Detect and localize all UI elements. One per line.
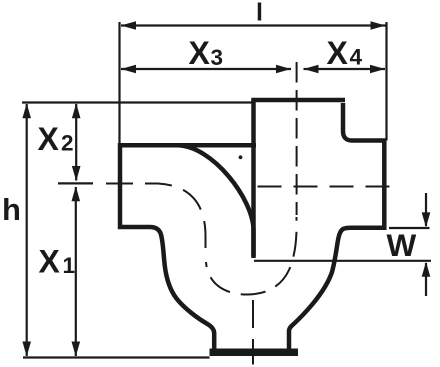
trap body outline: bowl right wall, outlet socket (289, 103, 384, 349)
bottom spigot centerline (252, 300, 254, 365)
arrowhead X3 right (276, 65, 291, 74)
svg-text:W: W (387, 227, 417, 263)
svg-text:X: X (327, 35, 349, 71)
inlet bend sweep curve (177, 145, 254, 256)
arrowhead l left (121, 21, 136, 30)
dimension line X3 (121, 68, 291, 70)
arrowhead X3 left (121, 65, 136, 74)
svg-text:2: 2 (61, 131, 74, 156)
arrowhead W up (422, 262, 431, 277)
vertical pipe top edge (251, 98, 345, 103)
arrowhead X4 right (370, 65, 385, 74)
W top extension line (389, 227, 430, 229)
svg-text:3: 3 (211, 45, 224, 70)
svg-text:X: X (39, 244, 61, 280)
arrowhead h top (22, 103, 31, 118)
arrowhead X1 bottom (72, 342, 81, 357)
dimension line W upper (425, 193, 427, 226)
section dot (239, 155, 243, 159)
arrowhead X2 bottom (72, 166, 81, 181)
dimension line X2 (75, 104, 77, 181)
svg-text:l: l (256, 0, 263, 27)
arrowhead X4 left (304, 65, 319, 74)
right extension line for l and X4 (385, 22, 387, 141)
dimension line W lower (425, 263, 427, 296)
dimension line l (121, 24, 386, 26)
svg-text:4: 4 (350, 45, 363, 70)
dimension line X4 (304, 68, 386, 70)
outlet centerline (258, 186, 399, 188)
vertical pipe centerline (296, 62, 298, 215)
svg-text:h: h (2, 192, 21, 227)
arrowhead l right (371, 21, 386, 30)
trap body outline: inlet socket and bowl left wall (120, 145, 256, 349)
hidden channel centerline: inlet through U-bend (106, 184, 206, 251)
svg-text:1: 1 (63, 253, 76, 278)
bottom reference extension line (23, 356, 210, 358)
left extension line for l and X3 (118, 22, 120, 145)
arrowhead h bottom (22, 342, 31, 357)
dimension line X1 (75, 187, 77, 356)
vertical pipe left wall (251, 100, 256, 258)
W bottom reference line (254, 260, 431, 262)
arrowhead X1 top (72, 186, 81, 201)
bottom spigot flange (210, 349, 299, 357)
arrowhead W down (422, 212, 431, 227)
arrowhead X2 top (72, 103, 81, 118)
svg-text:X: X (38, 121, 60, 157)
top reference extension line (22, 101, 252, 103)
svg-text:X: X (189, 35, 211, 71)
X2/X1 junction tick (58, 182, 93, 184)
dimension line h (26, 104, 28, 356)
